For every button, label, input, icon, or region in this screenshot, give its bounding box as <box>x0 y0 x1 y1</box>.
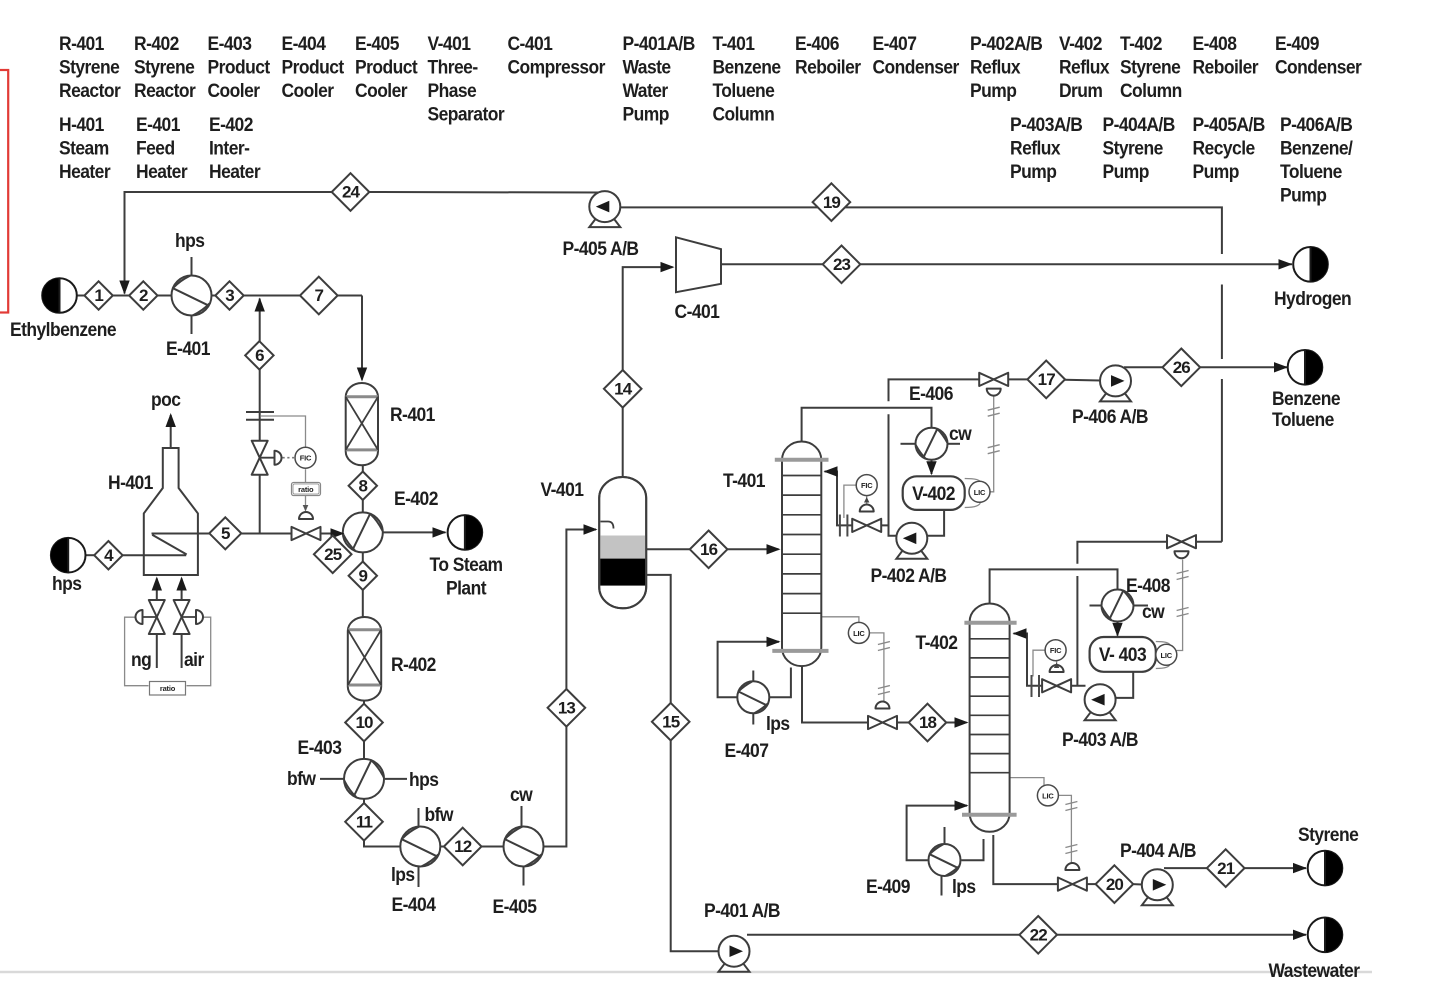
arrow: stream 14 into C-401 <box>661 262 675 272</box>
svg-text:Steam: Steam <box>59 137 109 159</box>
arrow: reflux into T-402 <box>1013 628 1027 638</box>
pipe: E-407 lps stubs <box>752 671 754 682</box>
svg-text:26: 26 <box>1173 358 1191 377</box>
svg-text:Product: Product <box>207 56 270 78</box>
pipe: stream 7 down into R-401 <box>361 296 363 380</box>
svg-text:Column: Column <box>1120 79 1182 101</box>
equipment legend header row 1 <box>59 32 1362 124</box>
separator V-401 <box>599 477 646 608</box>
pipe: recycle line 24 down to feed junction <box>125 192 351 294</box>
diagram labels <box>10 229 1360 981</box>
svg-text:P-406A/B: P-406A/B <box>1280 113 1353 135</box>
exchanger E-407 <box>737 681 769 713</box>
svg-text:P-405 A/B: P-405 A/B <box>562 237 638 259</box>
air valve <box>174 600 190 634</box>
svg-text:Styrene: Styrene <box>59 56 120 78</box>
signal: ng-air ratio control box <box>125 617 149 686</box>
stream diamond 9 <box>349 562 377 590</box>
svg-text:Benzene: Benzene <box>713 56 781 78</box>
stream diamond 5 <box>209 517 241 549</box>
pump P-406 A/B <box>1100 365 1131 401</box>
exchanger E-402 <box>343 512 383 552</box>
svg-text:P-402A/B: P-402A/B <box>970 32 1043 54</box>
svg-text:22: 22 <box>1030 926 1048 945</box>
svg-text:H-401: H-401 <box>108 471 153 493</box>
instrument FIC at stream 6 <box>295 447 316 468</box>
svg-text:Reactor: Reactor <box>59 79 121 101</box>
signal break ticks <box>988 407 1000 416</box>
stream diamond 3 <box>215 281 243 309</box>
svg-text:Cooler: Cooler <box>355 79 407 101</box>
svg-text:Reflux: Reflux <box>970 56 1021 78</box>
svg-text:Product: Product <box>282 56 345 78</box>
pipe: E-406 cw stubs <box>901 443 917 445</box>
exchanger E-405 <box>504 827 544 867</box>
svg-text:13: 13 <box>558 699 576 718</box>
svg-text:LIC: LIC <box>1042 791 1054 800</box>
arrow: stream 18 into T-402 <box>955 717 969 727</box>
instrument FIC at T-402 reflux <box>1045 640 1066 661</box>
svg-text:LIC: LIC <box>974 488 986 497</box>
svg-text:Styrene: Styrene <box>1103 137 1164 159</box>
svg-text:E-402: E-402 <box>394 487 438 509</box>
svg-text:E-404: E-404 <box>282 32 327 54</box>
svg-text:Pump: Pump <box>1280 184 1327 206</box>
arrow: stream 26 into benzene toluene outlet <box>1274 362 1288 372</box>
svg-text:4: 4 <box>104 546 114 565</box>
stream diamond 14 <box>604 370 642 408</box>
arrow: into R-401 <box>357 368 367 382</box>
outlet symbol To Steam Plant <box>448 515 483 550</box>
instrument LIC at T-401 bottoms <box>848 622 869 643</box>
reflux drum V-402 <box>903 476 965 510</box>
svg-text:Pump: Pump <box>1193 160 1240 182</box>
control valve on E-402 steam line <box>292 527 321 540</box>
svg-text:P-403A/B: P-403A/B <box>1010 113 1083 135</box>
signal/instrument thin lines <box>125 397 1183 866</box>
svg-text:Reboiler: Reboiler <box>795 56 861 78</box>
pipe: stream 22 P-401 to wastewater outlet <box>747 934 1306 936</box>
instrument bars on T-402 reflux line <box>1032 675 1040 697</box>
stream diamond 22 <box>1019 916 1057 954</box>
svg-text:Styrene: Styrene <box>1120 56 1181 78</box>
svg-text:Compressor: Compressor <box>507 56 605 78</box>
pipe: stream 5 to E-402 steam line <box>240 533 345 535</box>
pipe: E-408 to V-403 <box>1117 622 1119 636</box>
stream diamond 1 <box>84 281 112 309</box>
stream diamond 12 <box>444 828 482 866</box>
svg-text:21: 21 <box>1217 859 1235 878</box>
signal: T-401 reflux FIC tap <box>844 485 857 518</box>
arrow: stream 16 into T-401 <box>767 544 781 554</box>
svg-text:T-401: T-401 <box>723 469 765 491</box>
pipe: recycle horizontal to valve and down to P-403 discharge <box>1077 542 1222 564</box>
control valve V-402 distillate <box>979 373 1008 386</box>
svg-text:E-408: E-408 <box>1126 574 1170 596</box>
svg-text:23: 23 <box>833 255 851 274</box>
svg-text:24: 24 <box>342 183 361 202</box>
svg-text:V-401: V-401 <box>541 478 584 500</box>
svg-text:Condenser: Condenser <box>873 56 960 78</box>
pipe: recycle vertical gap segments at line 23 and 26 crossings <box>1221 285 1223 360</box>
svg-text:17: 17 <box>1038 370 1056 389</box>
svg-text:1: 1 <box>94 286 103 305</box>
svg-text:P-401 A/B: P-401 A/B <box>704 899 780 921</box>
inlet symbol Ethylbenzene <box>42 278 77 313</box>
pipe: H-401 coil and stream 5 <box>152 534 212 555</box>
svg-text:Reactor: Reactor <box>134 79 196 101</box>
svg-text:Ethylbenzene: Ethylbenzene <box>10 318 116 340</box>
svg-text:E-406: E-406 <box>795 32 839 54</box>
svg-text:Recycle: Recycle <box>1193 137 1256 159</box>
control valve T-402 reflux <box>1042 679 1071 692</box>
svg-text:E-402: E-402 <box>209 113 253 135</box>
svg-text:2: 2 <box>139 286 148 305</box>
arrow: stream 13 into V-401 <box>584 524 598 534</box>
pipe: poc stack line <box>170 415 172 448</box>
stream diamond 21 <box>1207 849 1245 887</box>
svg-text:R-402: R-402 <box>391 653 436 675</box>
pipe: stream 14 V-401 top to C-401 <box>623 267 673 477</box>
pipe: stream 23 C-401 to hydrogen outlet <box>721 263 1292 265</box>
svg-text:E-401: E-401 <box>136 113 180 135</box>
pump P-401 A/B <box>719 936 750 972</box>
stream diamond 10 <box>345 704 383 742</box>
pipe: E-409 lps stubs <box>944 827 946 843</box>
svg-text:P-401A/B: P-401A/B <box>623 32 696 54</box>
stream diamond 7 <box>300 277 338 315</box>
reflux drum V-403 <box>1090 637 1156 672</box>
svg-text:Water: Water <box>623 79 669 101</box>
pipe: stream 20 to P-404 <box>1133 883 1142 885</box>
pipe: stream 17 to P-406 <box>1065 379 1101 382</box>
svg-text:FIC: FIC <box>861 481 873 490</box>
signal: V-402 LIC to distillate valve <box>990 397 994 492</box>
svg-text:LIC: LIC <box>853 629 865 638</box>
outlet symbol Hydrogen <box>1293 247 1328 282</box>
svg-text:Cooler: Cooler <box>282 79 334 101</box>
svg-text:bfw: bfw <box>425 803 455 825</box>
svg-text:7: 7 <box>315 286 324 305</box>
exchanger E-408 <box>1102 590 1134 622</box>
stream diamond 6 <box>245 341 273 369</box>
svg-text:Benzene/: Benzene/ <box>1280 137 1353 159</box>
dotted link valve to FIC at stream 6 <box>283 457 295 459</box>
svg-text:P-403 A/B: P-403 A/B <box>1062 728 1138 750</box>
pipe: ng air risers into H-401 <box>156 579 158 603</box>
pipe: T-401 reflux line <box>825 472 889 526</box>
svg-text:V-401: V-401 <box>427 32 470 54</box>
stream diamond 18 <box>909 704 947 742</box>
arrow: E-408 outlet into V-403 <box>1112 623 1122 637</box>
svg-text:hps: hps <box>175 229 205 251</box>
pipe: E-403 bfw and hps side stubs <box>320 778 345 780</box>
svg-text:Heater: Heater <box>209 160 261 182</box>
svg-text:15: 15 <box>662 712 680 731</box>
svg-text:Reboiler: Reboiler <box>1193 56 1259 78</box>
svg-text:E-409: E-409 <box>1275 32 1319 54</box>
svg-text:P-406 A/B: P-406 A/B <box>1072 405 1148 427</box>
signal: T-402 reflux FIC tap <box>1033 650 1046 676</box>
pipe: E-401 hps stubs <box>191 257 193 276</box>
arrow: air riser <box>176 577 186 591</box>
svg-text:10: 10 <box>355 713 373 732</box>
arrow: poc up <box>166 413 176 427</box>
arrow: ng riser <box>152 577 162 591</box>
svg-text:Product: Product <box>355 56 418 78</box>
outlet symbol Wastewater <box>1308 918 1343 953</box>
pipe: P-403 discharge and T-402 reflux <box>1043 685 1086 687</box>
stream diamond 8 <box>349 472 377 500</box>
signal: FIC ratio loop at stream 6 valve <box>305 469 307 482</box>
svg-text:cw: cw <box>1142 600 1166 622</box>
svg-text:air: air <box>184 648 204 670</box>
compressor C-401 <box>676 237 721 292</box>
svg-text:T-402: T-402 <box>1120 32 1162 54</box>
reactor R-402 <box>348 617 381 701</box>
arrow: stream 23 into hydrogen outlet <box>1279 259 1293 269</box>
svg-text:T-402: T-402 <box>916 631 958 653</box>
arrow: stream 6 into feed line <box>255 298 265 312</box>
pipe: stream 15 V-401 bottom to P-401 <box>646 575 719 951</box>
svg-text:Column: Column <box>713 103 775 125</box>
pipe: H-401 stream 4 hps inlet <box>86 554 95 556</box>
exchanger E-404 <box>400 827 440 867</box>
svg-text:E-401: E-401 <box>166 337 210 359</box>
equipment legend header row 2 <box>59 113 1353 205</box>
instrument bars on T-401 reflux line <box>840 515 848 537</box>
svg-text:cw: cw <box>510 783 534 805</box>
svg-text:R-402: R-402 <box>134 32 179 54</box>
svg-text:Waste: Waste <box>623 56 671 78</box>
svg-text:E-405: E-405 <box>355 32 399 54</box>
arrow: E-409 vapor into T-402 <box>955 800 969 810</box>
svg-text:Three-: Three- <box>427 56 478 78</box>
stream diamond 20 <box>1096 865 1134 903</box>
arrow: stream 22 into wastewater outlet <box>1293 930 1307 940</box>
svg-text:25: 25 <box>324 545 342 564</box>
arrow: steam into E-402 <box>331 528 345 538</box>
svg-text:Pump: Pump <box>1010 160 1057 182</box>
svg-text:P-405A/B: P-405A/B <box>1193 113 1266 135</box>
pump P-405 A/B <box>589 191 620 227</box>
inlet symbol hps to E-401 label line <box>51 538 86 573</box>
svg-text:lps: lps <box>391 863 415 885</box>
svg-text:Benzene: Benzene <box>1272 387 1340 409</box>
pipe: line 19 from recycle corner to P-405 <box>621 207 1222 254</box>
instrument LIC at V-403 <box>1156 644 1177 665</box>
signal: V-403 LIC drum connectors <box>1156 642 1170 669</box>
svg-text:Toluene: Toluene <box>1272 408 1334 430</box>
pipe: E-404 bfw top and lps bottom stubs <box>418 808 420 828</box>
svg-text:V- 403: V- 403 <box>1099 643 1147 665</box>
svg-text:18: 18 <box>919 713 937 732</box>
svg-text:P-402 A/B: P-402 A/B <box>871 564 947 586</box>
pump P-402 A/B <box>896 523 927 559</box>
svg-text:12: 12 <box>454 837 472 856</box>
pipe: E-407 reboiler loop <box>718 642 779 698</box>
svg-text:Toluene: Toluene <box>713 79 775 101</box>
arrow: recycle into feed junction <box>119 281 129 295</box>
pipe: E-406 to V-402 <box>931 459 933 474</box>
signal: V-402 LIC drum connectors <box>965 479 981 508</box>
stream diamond 24 <box>332 173 370 211</box>
svg-text:E-403: E-403 <box>298 736 342 758</box>
svg-text:hps: hps <box>409 768 439 790</box>
pipe: T-402 bottoms to stream 20 valve <box>993 835 1058 884</box>
svg-text:20: 20 <box>1106 875 1124 894</box>
control valve T-401 bottoms <box>868 716 897 729</box>
pipe: ethylbenzene feed main line streams 1-3-7 <box>77 295 363 297</box>
outlet symbol Styrene <box>1308 851 1343 886</box>
pipe: hps steam vertical with stream 6 to feed junction <box>259 299 261 534</box>
arrowhead FIC stem T-401 <box>864 497 869 503</box>
svg-text:Phase: Phase <box>427 79 476 101</box>
reactor R-401 <box>346 383 378 465</box>
svg-text:Condenser: Condenser <box>1275 56 1362 78</box>
red partial frame at left edge <box>0 70 8 313</box>
column T-402 <box>962 604 1017 832</box>
control valve T-402 bottoms <box>1058 878 1087 891</box>
arrowhead FIC stem T-402 <box>1054 663 1059 669</box>
svg-text:V-402: V-402 <box>912 482 955 504</box>
svg-text:16: 16 <box>700 540 718 559</box>
svg-text:ratio: ratio <box>298 485 314 494</box>
svg-text:Heater: Heater <box>59 160 111 182</box>
svg-text:T-401: T-401 <box>713 32 755 54</box>
svg-text:R-401: R-401 <box>390 403 435 425</box>
pipe: E-408 cw stubs <box>1090 605 1103 607</box>
signal: T-402 bottoms LIC loop <box>1010 778 1044 785</box>
svg-text:Inter-: Inter- <box>209 137 250 159</box>
svg-text:Toluene: Toluene <box>1280 160 1342 182</box>
svg-text:Reflux: Reflux <box>1059 56 1110 78</box>
ng valve <box>149 600 165 634</box>
svg-text:bfw: bfw <box>287 767 317 789</box>
pipe: E-409 reboiler loop <box>907 806 967 861</box>
svg-text:E-408: E-408 <box>1193 32 1237 54</box>
stream diamond 17 <box>1027 361 1065 399</box>
pipe: stream 13 E-405 to V-401 <box>544 530 597 847</box>
pipe: R-401 to E-402 stream 8 <box>362 465 364 513</box>
svg-text:cw: cw <box>949 422 973 444</box>
svg-text:C-401: C-401 <box>675 300 720 322</box>
pipe: E-402 to R-402 stream 9 <box>362 552 364 618</box>
outlet symbol Benzene Toluene <box>1288 350 1323 385</box>
pipe: R-402 to E-403 stream 10 <box>363 701 365 760</box>
column T-401 <box>772 442 828 667</box>
arrow: reflux into T-401 <box>824 466 838 476</box>
svg-text:3: 3 <box>225 286 234 305</box>
svg-text:hps: hps <box>52 572 82 594</box>
pipe: stream 16 V-401 to T-401 <box>646 548 778 550</box>
svg-text:Pump: Pump <box>970 79 1017 101</box>
stream diamond 2 <box>129 281 157 309</box>
light gray separator line at bottom <box>0 971 1372 973</box>
pipe: T-401 bottoms to stream 18 valve <box>802 666 868 723</box>
break symbol on hps steam line <box>246 412 274 420</box>
pipe: E-403 to E-404 stream 11 <box>364 799 401 847</box>
arrow: E-406 outlet into V-402 <box>926 461 936 475</box>
svg-text:Heater: Heater <box>136 160 188 182</box>
svg-text:Separator: Separator <box>427 103 504 125</box>
signal: V-403 LIC to recycle valve <box>1177 560 1183 651</box>
svg-text:ng: ng <box>131 648 151 670</box>
pipe: line 24 from junction to pump P-405 <box>351 191 604 194</box>
svg-text:C-401: C-401 <box>507 32 552 54</box>
svg-text:FIC: FIC <box>300 454 312 463</box>
svg-text:poc: poc <box>151 388 181 410</box>
svg-text:E-407: E-407 <box>873 32 917 54</box>
exchanger E-403 <box>344 759 384 799</box>
svg-text:E-407: E-407 <box>725 739 769 761</box>
stream diamond 26 <box>1163 349 1201 387</box>
instrument FIC at T-401 reflux <box>856 475 877 496</box>
exchanger E-409 <box>929 844 961 876</box>
stream diamond 16 <box>690 531 728 569</box>
svg-text:R-401: R-401 <box>59 32 104 54</box>
svg-text:8: 8 <box>359 476 368 495</box>
control valve recycle <box>1167 535 1196 548</box>
stream diamond 19 <box>813 183 851 221</box>
svg-text:Styrene: Styrene <box>134 56 195 78</box>
stream diamond 23 <box>823 245 861 283</box>
ratio box at stream 6 <box>292 483 321 496</box>
pipe: V-402 bottom to P-402 <box>928 510 945 536</box>
svg-text:5: 5 <box>221 524 230 543</box>
svg-text:E-406: E-406 <box>909 382 953 404</box>
stream diamond 25 <box>314 536 352 574</box>
svg-text:E-405: E-405 <box>493 895 537 917</box>
svg-text:6: 6 <box>255 346 264 365</box>
actuator on stream 6 valve <box>275 451 282 465</box>
svg-text:E-409: E-409 <box>866 875 910 897</box>
exchanger E-401 <box>172 276 212 316</box>
svg-text:lps: lps <box>766 712 790 734</box>
pipe: stream 26 P-406 to benzene toluene outlet <box>1124 366 1288 368</box>
svg-text:Reflux: Reflux <box>1010 137 1061 159</box>
pipe: stream 21 P-404 to styrene outlet <box>1164 867 1306 869</box>
svg-text:Pump: Pump <box>623 103 670 125</box>
arrow: stream 21 into styrene outlet <box>1293 863 1307 873</box>
pipe: stream 18 into T-402 <box>947 722 967 724</box>
stream diamond 13 <box>548 689 586 727</box>
pipe: E-404 to E-405 stream 12 <box>441 846 504 848</box>
small arrow ratio to valve actuator <box>303 505 309 512</box>
svg-text:14: 14 <box>614 380 633 399</box>
svg-text:lps: lps <box>952 875 976 897</box>
pipe: E-405 cw top and bottom stubs <box>521 806 523 827</box>
svg-text:Hydrogen: Hydrogen <box>1274 287 1352 309</box>
svg-text:11: 11 <box>356 813 373 832</box>
svg-text:Cooler: Cooler <box>207 79 259 101</box>
stream diamond 4 <box>94 541 122 569</box>
ratio box ng-air <box>150 682 186 696</box>
svg-text:9: 9 <box>359 566 368 585</box>
signal: T-401 bottoms LIC loop <box>821 617 859 622</box>
svg-text:P-404 A/B: P-404 A/B <box>1120 839 1196 861</box>
svg-text:V-402: V-402 <box>1059 32 1102 54</box>
pipe: T-401 overhead to E-406 <box>802 408 932 441</box>
svg-text:H-401: H-401 <box>59 113 104 135</box>
pipe: T-402 overhead to E-408 <box>990 569 1118 603</box>
pipe: V-403 bottom to P-403 <box>1116 672 1133 698</box>
svg-text:Drum: Drum <box>1059 79 1103 101</box>
svg-text:Styrene: Styrene <box>1298 823 1359 845</box>
svg-text:E-404: E-404 <box>392 893 437 915</box>
furnace H-401 <box>144 448 198 575</box>
svg-text:ratio: ratio <box>160 684 176 693</box>
